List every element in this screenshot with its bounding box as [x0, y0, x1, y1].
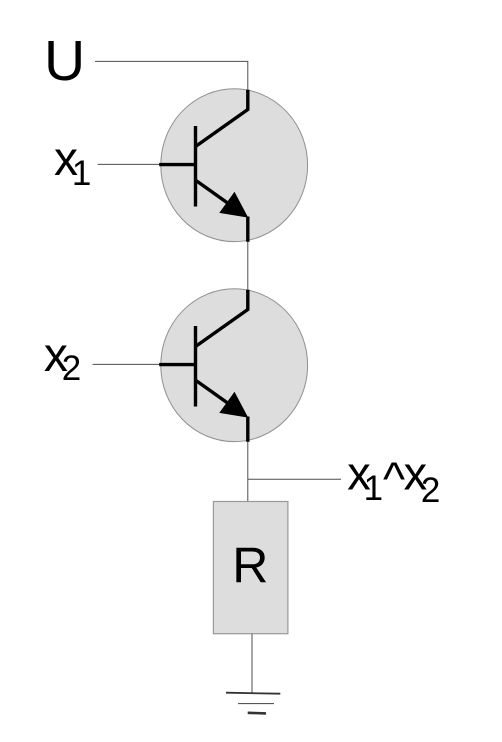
wire from output node to label	[248, 478, 341, 480]
wire from U to collector of Q1	[95, 61, 248, 90]
svg-text:2: 2	[62, 349, 81, 388]
svg-text:^: ^	[383, 452, 405, 505]
svg-text:1: 1	[364, 469, 383, 508]
ground	[226, 693, 280, 714]
svg-text:2: 2	[421, 471, 440, 510]
wire from x2 to base of Q2	[93, 363, 162, 365]
svg-text:R: R	[232, 538, 268, 594]
wire from x1 to base of Q1	[98, 163, 162, 165]
wire resistor to ground	[251, 634, 253, 694]
resistor R	[213, 502, 288, 634]
svg-text:1: 1	[72, 154, 91, 193]
transistor Q1	[159, 89, 307, 242]
wire Q1 emitter to Q2 collector	[247, 242, 249, 290]
svg-text:U: U	[44, 29, 85, 93]
node x1^x2 output label	[347, 447, 440, 510]
wire Q2 emitter down to resistor	[247, 442, 249, 502]
transistor Q2	[159, 289, 307, 442]
